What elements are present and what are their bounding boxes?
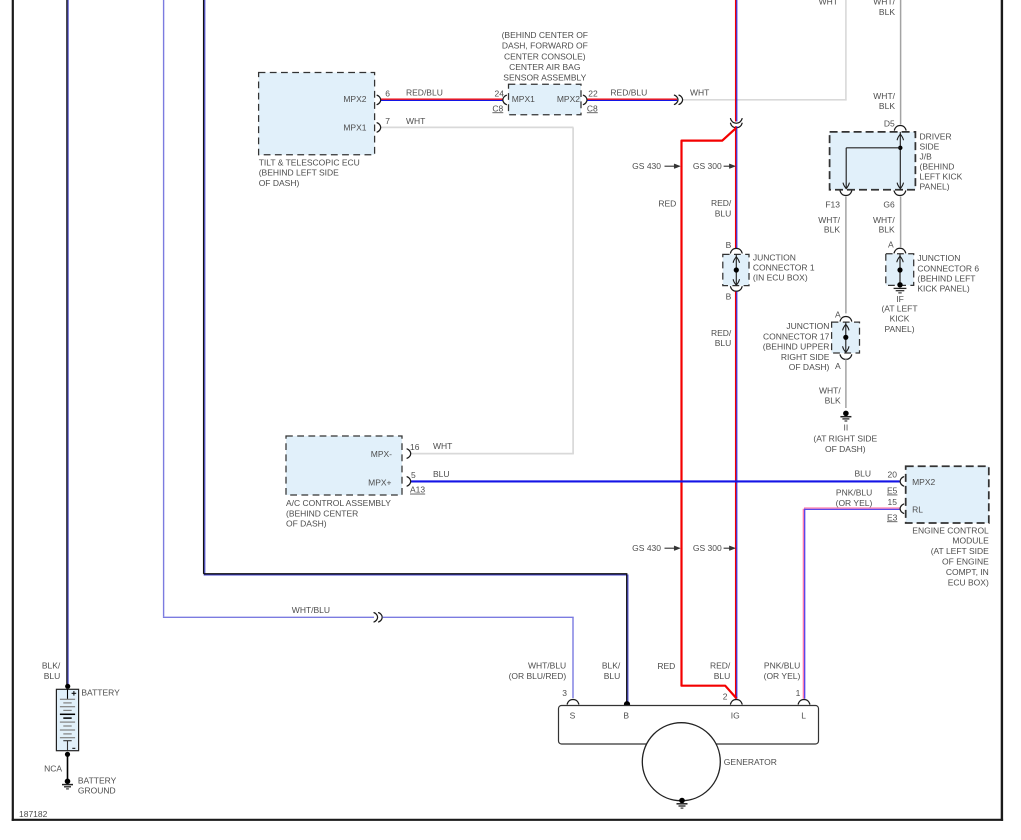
svg-text:B: B — [726, 292, 732, 302]
svg-text:BLK: BLK — [879, 7, 895, 17]
svg-text:BLU: BLU — [44, 671, 61, 681]
svg-text:NCA: NCA — [44, 763, 62, 773]
svg-text:II: II — [844, 422, 849, 432]
svg-text:C8: C8 — [492, 103, 503, 113]
svg-text:BLK: BLK — [879, 101, 895, 111]
svg-text:WHT/: WHT/ — [873, 0, 895, 7]
svg-text:6: 6 — [385, 88, 390, 98]
svg-text:BLK: BLK — [879, 225, 895, 235]
svg-text:BLK/: BLK/ — [42, 661, 61, 671]
svg-text:BLU: BLU — [604, 671, 621, 681]
svg-text:WHT: WHT — [819, 0, 838, 7]
svg-text:SENSOR ASSEMBLY: SENSOR ASSEMBLY — [503, 73, 586, 83]
svg-text:KICK: KICK — [890, 314, 910, 324]
svg-text:RED: RED — [657, 661, 675, 671]
svg-text:24: 24 — [495, 88, 505, 98]
svg-text:CENTER CONSOLE): CENTER CONSOLE) — [504, 51, 586, 61]
svg-text:BLK: BLK — [824, 225, 840, 235]
svg-text:RED/BLU: RED/BLU — [406, 88, 443, 98]
svg-text:GENERATOR: GENERATOR — [724, 757, 777, 767]
svg-text:22: 22 — [588, 88, 598, 98]
svg-text:OF DASH): OF DASH) — [789, 362, 830, 372]
svg-text:MPX2: MPX2 — [343, 94, 366, 104]
svg-text:PNK/BLU: PNK/BLU — [764, 661, 800, 671]
svg-text:ECU BOX): ECU BOX) — [948, 577, 989, 587]
svg-text:JUNCTION: JUNCTION — [786, 321, 829, 331]
svg-text:MPX+: MPX+ — [368, 477, 391, 487]
svg-text:DASH, FORWARD OF: DASH, FORWARD OF — [502, 41, 588, 51]
svg-text:JUNCTION: JUNCTION — [753, 252, 796, 262]
svg-text:RED: RED — [658, 198, 676, 208]
svg-text:(OR BLU/RED): (OR BLU/RED) — [509, 671, 567, 681]
svg-text:RIGHT SIDE: RIGHT SIDE — [781, 352, 830, 362]
svg-text:5: 5 — [411, 470, 416, 480]
svg-text:RED/: RED/ — [711, 328, 732, 338]
svg-text:JUNCTION: JUNCTION — [917, 253, 960, 263]
svg-text:E5: E5 — [887, 486, 898, 496]
svg-text:ENGINE CONTROL: ENGINE CONTROL — [912, 525, 989, 535]
svg-text:15: 15 — [888, 497, 898, 507]
svg-text:7: 7 — [385, 116, 390, 126]
svg-text:16: 16 — [410, 442, 420, 452]
svg-text:CONNECTOR 6: CONNECTOR 6 — [917, 263, 979, 273]
svg-text:S: S — [570, 710, 576, 720]
svg-text:F13: F13 — [825, 200, 840, 210]
svg-text:CENTER AIR BAG: CENTER AIR BAG — [509, 62, 580, 72]
svg-text:BLU: BLU — [714, 671, 731, 681]
svg-text:LEFT KICK: LEFT KICK — [920, 172, 963, 182]
svg-text:MPX2: MPX2 — [557, 94, 580, 104]
svg-text:MPX1: MPX1 — [512, 94, 535, 104]
svg-text:WHT: WHT — [406, 116, 425, 126]
svg-text:PNK/BLU: PNK/BLU — [836, 488, 872, 498]
svg-text:BLU: BLU — [854, 469, 871, 479]
svg-text:E3: E3 — [887, 512, 898, 522]
svg-text:(BEHIND CENTER: (BEHIND CENTER — [286, 508, 358, 518]
svg-text:MPX1: MPX1 — [343, 122, 366, 132]
svg-text:RED/: RED/ — [711, 198, 732, 208]
svg-text:GS 300: GS 300 — [693, 543, 722, 553]
svg-text:MODULE: MODULE — [952, 536, 989, 546]
svg-text:2: 2 — [723, 692, 728, 702]
svg-text:RED/: RED/ — [710, 661, 731, 671]
svg-text:(AT LEFT SIDE: (AT LEFT SIDE — [931, 546, 989, 556]
svg-text:GROUND: GROUND — [78, 785, 116, 795]
svg-text:WHT/BLU: WHT/BLU — [528, 661, 566, 671]
svg-text:CONNECTOR 1: CONNECTOR 1 — [753, 263, 815, 273]
svg-text:IF: IF — [896, 294, 904, 304]
svg-text:20: 20 — [888, 469, 898, 479]
svg-text:PANEL): PANEL) — [884, 324, 914, 334]
svg-text:WHT/: WHT/ — [873, 91, 895, 101]
svg-text:(AT LEFT: (AT LEFT — [881, 304, 917, 314]
svg-text:MPX2: MPX2 — [912, 477, 935, 487]
svg-text:KICK PANEL): KICK PANEL) — [917, 284, 969, 294]
svg-text:J/B: J/B — [920, 152, 933, 162]
svg-text:WHT/BLU: WHT/BLU — [292, 605, 330, 615]
svg-text:WHT/: WHT/ — [819, 386, 841, 396]
svg-text:PANEL): PANEL) — [920, 182, 950, 192]
svg-text:OF ENGINE: OF ENGINE — [942, 557, 989, 567]
svg-text:GS 300: GS 300 — [693, 161, 722, 171]
svg-text:(OR YEL): (OR YEL) — [764, 671, 801, 681]
svg-text:WHT: WHT — [433, 441, 452, 451]
svg-text:WHT: WHT — [690, 88, 709, 98]
svg-text:CONNECTOR 17: CONNECTOR 17 — [763, 331, 830, 341]
svg-text:SIDE: SIDE — [920, 142, 940, 152]
svg-text:GS 430: GS 430 — [632, 161, 661, 171]
svg-text:G6: G6 — [883, 200, 895, 210]
svg-text:A: A — [888, 240, 894, 250]
svg-text:BLK: BLK — [825, 396, 841, 406]
svg-text:(OR YEL): (OR YEL) — [836, 498, 873, 508]
svg-text:1: 1 — [796, 688, 801, 698]
svg-text:D5: D5 — [884, 119, 895, 129]
svg-text:C8: C8 — [587, 103, 598, 113]
svg-text:(BEHIND LEFT: (BEHIND LEFT — [917, 274, 975, 284]
svg-text:DRIVER: DRIVER — [920, 132, 952, 142]
svg-text:B: B — [623, 710, 629, 720]
svg-text:B: B — [726, 240, 732, 250]
svg-text:COMPT, IN: COMPT, IN — [946, 567, 989, 577]
svg-text:L: L — [801, 710, 806, 720]
svg-text:RL: RL — [912, 505, 923, 515]
svg-text:A/C CONTROL ASSEMBLY: A/C CONTROL ASSEMBLY — [286, 498, 391, 508]
svg-text:3: 3 — [562, 688, 567, 698]
svg-text:IG: IG — [731, 710, 740, 720]
svg-text:MPX-: MPX- — [371, 449, 392, 459]
svg-text:BATTERY: BATTERY — [78, 775, 117, 785]
svg-text:WHT/: WHT/ — [873, 215, 895, 225]
svg-text:A: A — [835, 309, 841, 319]
svg-text:OF DASH): OF DASH) — [259, 178, 300, 188]
svg-text:BATTERY: BATTERY — [81, 688, 120, 698]
svg-text:WHT/: WHT/ — [818, 215, 840, 225]
svg-text:(BEHIND CENTER OF: (BEHIND CENTER OF — [502, 30, 588, 40]
svg-text:TILT & TELESCOPIC ECU: TILT & TELESCOPIC ECU — [259, 157, 360, 167]
svg-text:(BEHIND UPPER: (BEHIND UPPER — [763, 342, 830, 352]
svg-text:OF DASH): OF DASH) — [286, 519, 327, 529]
svg-text:BLK/: BLK/ — [602, 661, 621, 671]
svg-text:BLU: BLU — [715, 208, 732, 218]
svg-text:(IN ECU BOX): (IN ECU BOX) — [753, 273, 808, 283]
svg-text:BLU: BLU — [715, 338, 732, 348]
svg-text:OF DASH): OF DASH) — [825, 444, 866, 454]
svg-text:GS 430: GS 430 — [632, 543, 661, 553]
svg-text:(BEHIND LEFT SIDE: (BEHIND LEFT SIDE — [259, 168, 339, 178]
svg-text:187182: 187182 — [19, 809, 48, 819]
svg-text:RED/BLU: RED/BLU — [610, 88, 647, 98]
svg-text:BLU: BLU — [433, 469, 450, 479]
svg-text:(AT RIGHT SIDE: (AT RIGHT SIDE — [813, 433, 877, 443]
svg-text:A13: A13 — [410, 485, 425, 495]
svg-text:(BEHIND: (BEHIND — [920, 162, 955, 172]
svg-text:A: A — [835, 361, 841, 371]
